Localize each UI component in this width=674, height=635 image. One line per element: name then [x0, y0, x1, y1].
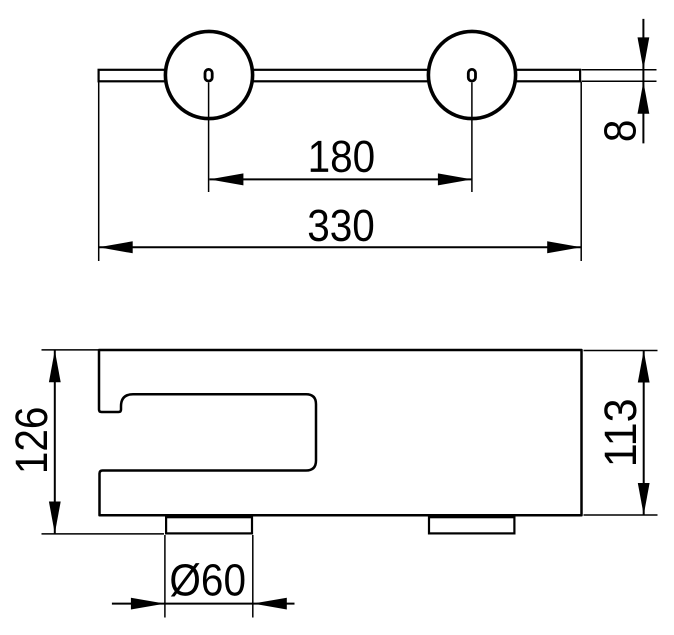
svg-text:126: 126 [7, 407, 57, 475]
keyhole slot left [205, 69, 212, 81]
extension line Ø60 left [164, 535, 166, 618]
mounting rosette right [428, 31, 515, 118]
svg-text:330: 330 [307, 201, 375, 251]
dimension line Ø60 [112, 598, 295, 610]
dimension line 126 [49, 350, 61, 533]
extension line from bar right end [580, 82, 582, 261]
foot right [429, 517, 514, 533]
mounting rosette left [165, 31, 252, 118]
foot left [166, 517, 252, 533]
dimension line 8 [638, 19, 650, 143]
extension lines for thickness 8 [582, 70, 657, 82]
dimension line 113 [638, 351, 650, 516]
center extension line left rosette [208, 83, 210, 193]
extension line from bar left end [98, 82, 100, 261]
svg-text:113: 113 [596, 398, 646, 467]
extension lines for 113 [584, 351, 658, 516]
svg-text:Ø60: Ø60 [169, 555, 246, 605]
dimension line 330 [99, 241, 582, 253]
extension line 126 top [42, 349, 99, 351]
svg-text:8: 8 [596, 120, 646, 143]
dimension line 180 [209, 173, 472, 185]
center extension line right rosette [471, 83, 473, 193]
extension line Ø60 right [252, 535, 254, 618]
svg-text:180: 180 [308, 132, 376, 182]
extension line 126 bottom [42, 533, 165, 535]
top view: wall bar [99, 70, 580, 82]
front view: body outline [99, 350, 582, 515]
keyhole slot right [468, 69, 475, 81]
